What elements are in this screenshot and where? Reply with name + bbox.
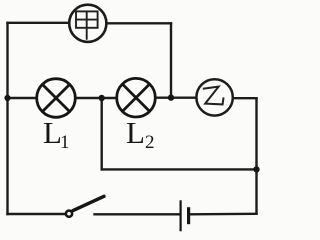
- wire bottom from left corner to switch: [8, 213, 65, 215]
- svg-text:2: 2: [145, 132, 155, 153]
- wire top-right vertical down to node B: [170, 23, 172, 97]
- wire middle: lamp L2 to meter yi through node B: [156, 96, 197, 98]
- node D junction dot (right, on bypass): [253, 166, 259, 172]
- svg-text:1: 1: [60, 132, 70, 153]
- wire middle: meter yi to right corner: [233, 97, 257, 99]
- meter jia U1 circle: [69, 5, 106, 42]
- meter yi U2 character strokes: [204, 87, 224, 105]
- meter yi U2 circle: [196, 79, 232, 115]
- node A junction dot (left): [4, 95, 10, 101]
- wire top horizontal left segment to meter jia: [8, 22, 69, 24]
- wire middle: lamp L1 to lamp L2 through node C: [76, 97, 117, 99]
- wire right vertical down to battery corner: [255, 98, 257, 214]
- node C junction dot (between L1 and L2): [99, 95, 105, 101]
- wire bottom from switch to battery: [95, 213, 180, 215]
- battery B1 long plate: [180, 200, 182, 231]
- switch S1 pivot circle: [66, 211, 72, 217]
- wire top-left vertical (left side): [6, 23, 8, 214]
- lamp L2 cross: [123, 84, 150, 111]
- node B junction dot (between L2 and meter yi): [168, 94, 174, 100]
- svg-text:L: L: [126, 115, 145, 150]
- wire middle: node A to lamp L1: [8, 97, 37, 99]
- wire bottom from battery to right corner: [191, 213, 257, 216]
- lamp L2 circle: [117, 78, 156, 117]
- lamp L1 cross: [43, 85, 70, 112]
- wire bypass vertical from node C: [100, 98, 102, 169]
- switch S1 lever: [73, 196, 104, 210]
- lamp L1 circle: [37, 79, 76, 118]
- wire top horizontal right segment from meter jia: [107, 22, 171, 24]
- meter jia U1 character strokes: [76, 11, 98, 38]
- battery B1 short thick plate: [187, 207, 190, 224]
- wire bypass horizontal to node D: [102, 168, 257, 170]
